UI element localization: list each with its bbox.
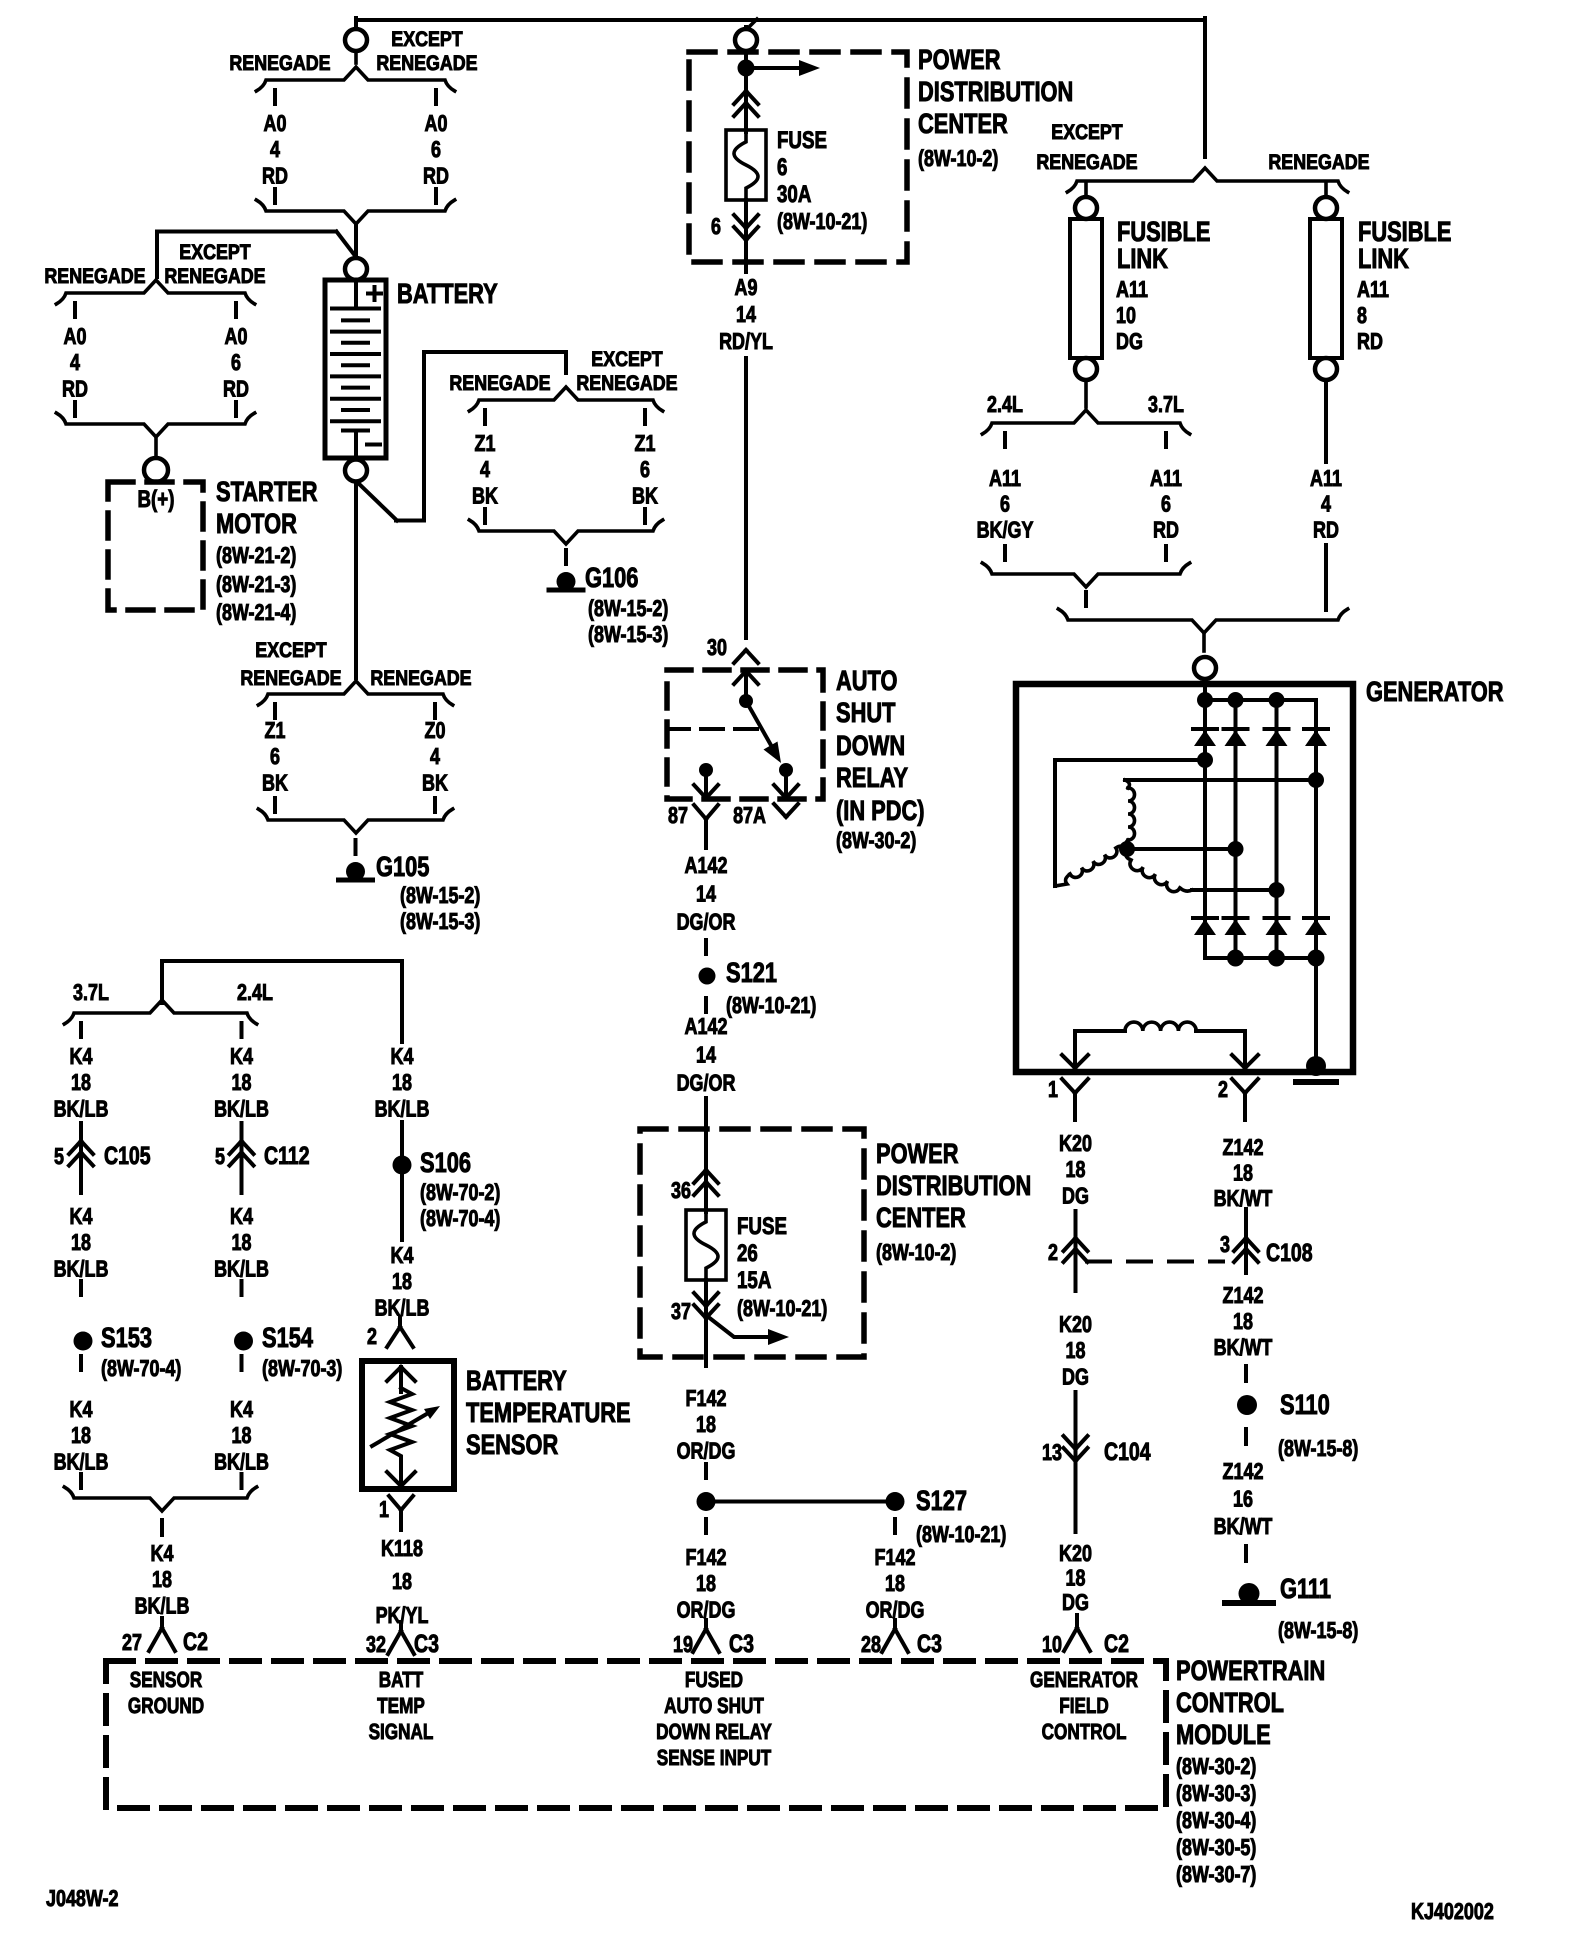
svg-text:18: 18 — [232, 1229, 252, 1255]
svg-text:(8W-10-21): (8W-10-21) — [777, 208, 867, 234]
brace merge starter stack — [56, 413, 254, 437]
svg-text:6: 6 — [640, 456, 650, 482]
svg-text:RD: RD — [223, 375, 249, 401]
svg-text:F142: F142 — [686, 1385, 727, 1411]
svg-text:C3: C3 — [414, 1630, 439, 1658]
svg-text:4: 4 — [480, 456, 490, 482]
connector fork BTS pin 1 — [389, 1496, 401, 1510]
svg-text:OR/DG: OR/DG — [677, 1437, 736, 1463]
svg-text:6: 6 — [1000, 491, 1010, 517]
wire stub dash above F142 junction — [704, 1464, 708, 1478]
svg-text:AUTO SHUT: AUTO SHUT — [664, 1693, 764, 1718]
svg-text:(8W-70-2): (8W-70-2) — [420, 1179, 500, 1205]
svg-text:BK/LB: BK/LB — [214, 1255, 269, 1281]
connector chevrons K20 C108 side — [1064, 1238, 1076, 1251]
wire stub dashes engine stack — [79, 1023, 83, 1037]
svg-text:S106: S106 — [420, 1147, 471, 1178]
svg-text:10: 10 — [1042, 1631, 1062, 1657]
svg-text:F142: F142 — [686, 1544, 727, 1570]
svg-text:Z1: Z1 — [475, 430, 496, 456]
brace split top stack 1 — [354, 51, 358, 63]
wire stub dash below S121 — [704, 998, 708, 1012]
svg-text:DOWN RELAY: DOWN RELAY — [656, 1719, 772, 1744]
svg-text:RENEGADE: RENEGADE — [370, 667, 471, 690]
svg-text:FIELD: FIELD — [1059, 1693, 1109, 1718]
ground generator internal — [1306, 1056, 1326, 1076]
svg-text:RD/YL: RD/YL — [719, 328, 773, 354]
svg-text:A142: A142 — [685, 852, 728, 878]
svg-text:DG: DG — [1062, 1182, 1089, 1208]
svg-text:6: 6 — [431, 136, 441, 162]
svg-text:15A: 15A — [737, 1267, 771, 1294]
svg-text:G111: G111 — [1280, 1573, 1331, 1604]
svg-text:18: 18 — [392, 1268, 412, 1294]
svg-text:BATTERY: BATTERY — [397, 278, 498, 309]
brace merge bottom stack 1 — [256, 200, 454, 224]
connector C108 dashed link — [1087, 1260, 1223, 1264]
svg-text:K118: K118 — [381, 1535, 423, 1561]
svg-text:G106: G106 — [585, 562, 638, 593]
wire battery negative to G105 — [354, 482, 358, 678]
svg-text:5: 5 — [54, 1143, 64, 1169]
svg-text:BK/WT: BK/WT — [1214, 1513, 1273, 1539]
svg-text:(8W-10-21): (8W-10-21) — [737, 1295, 827, 1321]
svg-text:(8W-21-4): (8W-21-4) — [216, 599, 296, 625]
svg-text:K4: K4 — [70, 1396, 93, 1422]
svg-text:A0: A0 — [64, 323, 87, 349]
wire stub dash above G111 — [1244, 1546, 1248, 1561]
svg-text:K4: K4 — [230, 1203, 253, 1229]
svg-text:13: 13 — [1042, 1439, 1062, 1465]
connector circle generator output — [1194, 657, 1216, 679]
wire stub dashes starter stack — [73, 303, 77, 317]
svg-text:(8W-30-2): (8W-30-2) — [1176, 1753, 1256, 1779]
svg-text:RD: RD — [62, 375, 88, 401]
stator phase A tap — [1197, 752, 1213, 768]
wire right link to merge brace — [1324, 545, 1328, 610]
svg-text:RENEGADE: RENEGADE — [164, 265, 265, 288]
wire stub dashes G106 stack — [483, 410, 487, 424]
wire through C112 — [240, 1123, 244, 1193]
fusible link right body — [1310, 219, 1342, 358]
svg-text:BK/LB: BK/LB — [54, 1255, 109, 1281]
svg-text:SENSE INPUT: SENSE INPUT — [657, 1745, 772, 1770]
wire stub dash above S154 — [240, 1281, 244, 1295]
connector chevrons fuse 6 line side — [734, 91, 746, 104]
svg-text:(8W-70-4): (8W-70-4) — [101, 1355, 181, 1381]
connector C105 chevrons — [69, 1141, 81, 1154]
svg-text:RD: RD — [1153, 516, 1179, 542]
svg-text:LINK: LINK — [1117, 243, 1168, 274]
connector circle fusible link A left top — [1075, 197, 1097, 219]
relay switch pivot dot — [739, 694, 753, 708]
svg-text:RENEGADE: RENEGADE — [376, 52, 477, 75]
wire K20 to PCM — [1074, 1461, 1078, 1532]
wire stub dash below S154 — [240, 1356, 244, 1370]
svg-text:4: 4 — [1321, 491, 1331, 517]
diodes bottom row — [1193, 916, 1217, 920]
svg-text:F142: F142 — [875, 1544, 916, 1570]
svg-text:S127: S127 — [916, 1485, 967, 1516]
svg-text:RENEGADE: RENEGADE — [229, 52, 330, 75]
svg-text:BK/LB: BK/LB — [54, 1095, 109, 1121]
svg-text:(8W-70-4): (8W-70-4) — [420, 1205, 500, 1231]
svg-text:DOWN: DOWN — [836, 730, 905, 761]
fuse 6 30A — [726, 130, 766, 200]
brace split G106 stack — [469, 387, 662, 411]
generator field pin chevrons — [1062, 1055, 1075, 1068]
svg-text:K4: K4 — [230, 1396, 253, 1422]
generator box — [1016, 684, 1353, 1072]
svg-text:6: 6 — [777, 154, 787, 181]
splice S110 — [1237, 1395, 1257, 1415]
svg-text:27: 27 — [122, 1629, 142, 1655]
svg-text:A0: A0 — [225, 323, 248, 349]
connector fork generator pin 1 — [1062, 1079, 1075, 1093]
wire brace to battery — [354, 224, 358, 259]
label battery minus — [367, 443, 380, 447]
wire A9 to relay — [744, 262, 748, 272]
svg-text:K20: K20 — [1059, 1540, 1092, 1566]
relay common terminal chevron — [734, 671, 746, 684]
svg-text:10: 10 — [1116, 302, 1136, 328]
svg-text:TEMPERATURE: TEMPERATURE — [466, 1397, 631, 1428]
svg-text:CONTROL: CONTROL — [1176, 1687, 1284, 1718]
generator ground drop — [1314, 958, 1318, 1060]
svg-text:Z1: Z1 — [265, 717, 286, 743]
wire A9 down to relay 30 — [744, 358, 748, 638]
svg-text:RD: RD — [423, 162, 449, 188]
svg-text:RENEGADE: RENEGADE — [240, 667, 341, 690]
svg-text:18: 18 — [392, 1568, 412, 1594]
connector C112 chevrons — [230, 1141, 242, 1154]
brace split starter stack — [56, 280, 254, 304]
wire stub dashes link stack — [1003, 433, 1007, 447]
svg-text:18: 18 — [696, 1570, 716, 1596]
svg-text:Z142: Z142 — [1223, 1134, 1264, 1160]
svg-text:18: 18 — [885, 1570, 905, 1596]
wire K20 to C108 row — [1074, 1211, 1078, 1291]
svg-text:18: 18 — [696, 1411, 716, 1437]
svg-text:4: 4 — [70, 349, 80, 375]
svg-text:BK/WT: BK/WT — [1214, 1334, 1273, 1360]
svg-text:K4: K4 — [230, 1043, 253, 1069]
svg-text:AUTO: AUTO — [836, 665, 897, 696]
svg-text:(8W-30-2): (8W-30-2) — [836, 827, 916, 853]
junction dots top bus — [1197, 692, 1213, 708]
junction dot F142 — [697, 1492, 716, 1511]
svg-text:BK/GY: BK/GY — [977, 516, 1034, 542]
connector fork relay pin 30 — [734, 650, 746, 663]
svg-text:Z0: Z0 — [425, 717, 446, 743]
svg-text:RENEGADE: RENEGADE — [44, 265, 145, 288]
svg-text:18: 18 — [1233, 1160, 1253, 1186]
stator wye junction dot — [1119, 841, 1135, 857]
connector fork relay 87 below box — [694, 805, 706, 819]
svg-text:14: 14 — [696, 880, 716, 906]
label battery plus — [368, 292, 381, 296]
svg-text:K4: K4 — [151, 1540, 174, 1566]
svg-text:J048W-2: J048W-2 — [46, 1885, 118, 1911]
svg-text:A11: A11 — [989, 465, 1021, 491]
wire stub dashes stack1 bottom — [273, 189, 277, 203]
svg-text:STARTER: STARTER — [216, 476, 318, 507]
connector chevrons fuse 26 load side — [694, 1305, 706, 1318]
svg-text:S110: S110 — [1280, 1389, 1330, 1420]
svg-text:SENSOR: SENSOR — [130, 1667, 203, 1692]
connector fork PCM pin 10 — [1075, 1615, 1079, 1628]
brace merge G106 stack — [469, 520, 662, 544]
stator coil 2 (to lower left) — [1116, 846, 1127, 849]
svg-text:26: 26 — [737, 1240, 758, 1267]
wire junction to S127 — [706, 1500, 886, 1504]
stator coil 1 (vertical) — [1125, 780, 1129, 788]
svg-text:36: 36 — [671, 1177, 691, 1203]
wire stub to right link — [1324, 182, 1328, 198]
wire stub dash above S110 — [1244, 1366, 1248, 1381]
svg-text:2.4L: 2.4L — [987, 391, 1023, 417]
svg-text:C105: C105 — [104, 1142, 151, 1170]
connector fork PCM pin 19 — [704, 1620, 708, 1629]
svg-text:2.4L: 2.4L — [237, 979, 273, 1005]
svg-text:RD: RD — [262, 162, 288, 188]
svg-text:8: 8 — [1357, 302, 1367, 328]
svg-text:1: 1 — [379, 1496, 389, 1522]
wire stub dash to merge brace left — [79, 1474, 83, 1488]
svg-text:4: 4 — [270, 136, 280, 162]
stator center tap line — [1127, 847, 1236, 851]
svg-text:18: 18 — [1066, 1565, 1086, 1591]
svg-text:RENEGADE: RENEGADE — [1268, 151, 1369, 174]
fuse 26 15A — [686, 1210, 726, 1280]
splice S127 — [886, 1492, 905, 1511]
connector circle fusible link B bottom — [1315, 358, 1337, 380]
wire stub dash below S127 — [893, 1519, 897, 1533]
svg-text:18: 18 — [232, 1069, 252, 1095]
svg-text:C3: C3 — [729, 1630, 754, 1658]
svg-text:C104: C104 — [1104, 1438, 1151, 1466]
svg-text:B(+): B(+) — [138, 486, 175, 513]
svg-text:BK: BK — [632, 482, 658, 508]
svg-text:4: 4 — [430, 743, 440, 769]
brace merge generator feed — [1058, 609, 1347, 633]
wire stub to G105 — [354, 840, 358, 854]
svg-text:K20: K20 — [1059, 1130, 1092, 1156]
wire K20 to C104 — [1074, 1392, 1078, 1461]
svg-text:SHUT: SHUT — [836, 697, 895, 728]
svg-text:POWERTRAIN: POWERTRAIN — [1176, 1655, 1325, 1686]
svg-text:18: 18 — [71, 1229, 91, 1255]
svg-text:(8W-30-7): (8W-30-7) — [1176, 1861, 1256, 1887]
wire PDC feed drop — [746, 19, 757, 30]
wire stub dash above S153 — [79, 1281, 83, 1295]
wire tap to starter motor stack — [157, 230, 336, 234]
svg-text:BK/WT: BK/WT — [1214, 1185, 1273, 1211]
relay coil divider dashed line — [667, 727, 761, 731]
svg-text:BATTERY: BATTERY — [466, 1365, 567, 1396]
brace split G105 stack — [258, 681, 452, 705]
svg-text:K4: K4 — [391, 1242, 414, 1268]
svg-text:18: 18 — [71, 1422, 91, 1448]
svg-text:DG: DG — [1062, 1363, 1089, 1389]
svg-text:2: 2 — [1218, 1076, 1228, 1102]
BTS variable arrow — [372, 1412, 430, 1446]
wire Z142 to C108 — [1244, 1209, 1248, 1273]
svg-text:3.7L: 3.7L — [73, 979, 109, 1005]
svg-text:18: 18 — [1066, 1156, 1086, 1182]
relay switch arm to 87A — [746, 701, 772, 747]
svg-text:5: 5 — [215, 1143, 225, 1169]
wire below S106 — [400, 1175, 404, 1240]
splice S106 — [393, 1156, 412, 1175]
wire PDC internal feed — [744, 51, 748, 132]
wire brace to starter circle — [154, 437, 158, 459]
connector circle PDC feed — [735, 29, 757, 51]
svg-text:GENERATOR: GENERATOR — [1366, 676, 1504, 707]
svg-text:CENTER: CENTER — [918, 108, 1008, 139]
connector fork generator pin 2 — [1232, 1079, 1245, 1093]
svg-text:A11: A11 — [1150, 465, 1182, 491]
svg-text:(8W-15-8): (8W-15-8) — [1278, 1617, 1358, 1643]
fusible link left body — [1070, 219, 1102, 358]
svg-text:BK: BK — [262, 769, 288, 795]
connector circle battery positive — [345, 258, 367, 280]
svg-text:K4: K4 — [70, 1043, 93, 1069]
wire stub dash below S110 — [1244, 1429, 1248, 1444]
ground G105 — [346, 862, 365, 881]
generator B+ vertical bus — [1203, 684, 1207, 958]
brace split fusible links — [1067, 168, 1347, 192]
wire to S106 — [400, 1122, 404, 1156]
connector circle battery feed splice — [345, 29, 367, 51]
svg-text:(8W-10-2): (8W-10-2) — [876, 1239, 956, 1265]
svg-text:87: 87 — [668, 802, 688, 828]
svg-text:18: 18 — [1066, 1337, 1086, 1363]
svg-text:RENEGADE: RENEGADE — [1036, 151, 1137, 174]
wire fuse26 load side — [704, 1280, 708, 1357]
wire stub dash to merge brace right — [240, 1474, 244, 1488]
svg-text:S153: S153 — [101, 1322, 152, 1353]
svg-text:DG: DG — [1116, 328, 1143, 354]
svg-text:C2: C2 — [1104, 1630, 1129, 1658]
battery temperature sensor box — [362, 1361, 454, 1489]
svg-text:3: 3 — [1220, 1231, 1230, 1257]
connector chevrons fuse 6 load side — [734, 227, 746, 240]
connector fork BTS pin 2 — [398, 1318, 402, 1327]
svg-text:K4: K4 — [391, 1043, 414, 1069]
wire stub to left link — [1084, 182, 1088, 198]
relay 87 stem and chevron — [704, 770, 708, 798]
svg-text:6: 6 — [1161, 491, 1171, 517]
wire right link down — [1324, 381, 1328, 462]
wire stub dash above S121 — [704, 940, 708, 954]
svg-text:TEMP: TEMP — [377, 1693, 425, 1718]
svg-text:RELAY: RELAY — [836, 762, 908, 793]
relay 87A stem and chevron — [784, 770, 788, 798]
svg-text:BATT: BATT — [379, 1667, 424, 1692]
svg-text:16: 16 — [1233, 1486, 1253, 1512]
svg-text:14: 14 — [736, 301, 756, 327]
svg-text:6: 6 — [711, 213, 721, 239]
svg-text:28: 28 — [861, 1631, 881, 1657]
svg-text:(8W-21-2): (8W-21-2) — [216, 542, 296, 568]
wire stub dash below F142 junction — [704, 1519, 708, 1533]
svg-text:S121: S121 — [726, 957, 777, 988]
svg-text:(8W-30-3): (8W-30-3) — [1176, 1780, 1256, 1806]
svg-text:BK/LB: BK/LB — [375, 1095, 430, 1121]
svg-text:EXCEPT: EXCEPT — [1051, 121, 1123, 144]
svg-text:(8W-10-2): (8W-10-2) — [918, 145, 998, 171]
svg-text:G105: G105 — [376, 851, 429, 882]
wire stub dashes stack1 — [273, 90, 277, 104]
svg-text:DG/OR: DG/OR — [677, 1070, 736, 1096]
connector circle fusible link A left bottom — [1075, 358, 1097, 380]
svg-text:EXCEPT: EXCEPT — [179, 241, 251, 264]
generator rectifier column wires — [1234, 700, 1238, 958]
svg-text:EXCEPT: EXCEPT — [255, 639, 327, 662]
svg-text:(8W-15-3): (8W-15-3) — [588, 621, 668, 647]
BTS thermistor zigzag — [390, 1388, 412, 1462]
svg-text:Z142: Z142 — [1223, 1282, 1264, 1308]
svg-text:A0: A0 — [264, 110, 287, 136]
svg-text:EXCEPT: EXCEPT — [591, 348, 663, 371]
svg-text:POWER: POWER — [918, 44, 1001, 75]
svg-text:Z1: Z1 — [635, 430, 656, 456]
arrow PDC2 feed right — [707, 1316, 767, 1337]
svg-text:CENTER: CENTER — [876, 1202, 966, 1233]
svg-text:(8W-10-21): (8W-10-21) — [726, 992, 816, 1018]
svg-text:32: 32 — [366, 1631, 386, 1657]
stator phase C line — [1192, 888, 1277, 892]
svg-text:A11: A11 — [1357, 276, 1389, 302]
BTS internal pin chevron bottom — [399, 1462, 403, 1486]
svg-text:19: 19 — [673, 1631, 693, 1657]
brace merge sensor ground — [64, 1487, 256, 1511]
svg-text:1: 1 — [1048, 1076, 1058, 1102]
svg-text:A11: A11 — [1116, 276, 1148, 302]
svg-text:Z142: Z142 — [1223, 1458, 1264, 1484]
wire sensor ground top link — [160, 961, 164, 1003]
svg-text:37: 37 — [671, 1298, 691, 1324]
wire through C105 — [79, 1123, 83, 1193]
svg-text:A0: A0 — [425, 110, 448, 136]
svg-text:RENEGADE: RENEGADE — [576, 372, 677, 395]
svg-text:A9: A9 — [735, 274, 758, 300]
svg-text:18: 18 — [152, 1566, 172, 1592]
wire stub dashes starter stack bottom — [73, 402, 77, 416]
wire stub dashes G105 stack — [273, 704, 277, 718]
svg-text:CONTROL: CONTROL — [1042, 1719, 1127, 1744]
connector fork PCM pin 28 — [893, 1620, 897, 1629]
svg-text:C2: C2 — [183, 1628, 208, 1656]
relay terminal 87 dot — [699, 763, 713, 777]
svg-text:RD: RD — [1313, 516, 1339, 542]
svg-text:(8W-15-8): (8W-15-8) — [1278, 1435, 1358, 1461]
svg-text:(8W-30-4): (8W-30-4) — [1176, 1807, 1256, 1833]
svg-text:14: 14 — [696, 1041, 716, 1067]
powertrain control module dashed box — [106, 1661, 1166, 1808]
svg-text:MOTOR: MOTOR — [216, 508, 297, 539]
svg-text:6: 6 — [270, 743, 280, 769]
svg-text:30: 30 — [707, 634, 727, 660]
ground G106 — [557, 572, 576, 591]
svg-text:(IN PDC): (IN PDC) — [836, 795, 925, 826]
connector fork relay 87A below box — [774, 804, 786, 817]
svg-text:(8W-70-3): (8W-70-3) — [262, 1355, 342, 1381]
wire stub left link to brace — [1084, 381, 1088, 407]
svg-text:DISTRIBUTION: DISTRIBUTION — [918, 76, 1073, 107]
svg-text:RENEGADE: RENEGADE — [449, 372, 550, 395]
